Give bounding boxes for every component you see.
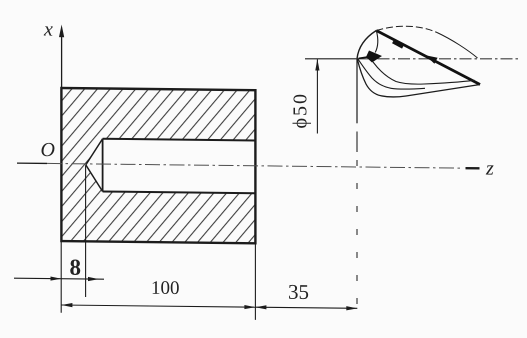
extension line left face <box>60 241 62 313</box>
extension line right face <box>254 243 256 320</box>
svg-text:O: O <box>41 139 55 161</box>
x axis arrowhead <box>59 24 64 37</box>
dim 35 left arrow <box>255 305 266 309</box>
drill cone lower <box>86 165 103 192</box>
dim 8 line <box>14 278 104 279</box>
dim phi50 line <box>316 59 318 133</box>
drill: chisel dark area <box>366 51 382 63</box>
drill: top arc solid part <box>437 33 478 59</box>
svg-text:ϕ50: ϕ50 <box>290 92 312 129</box>
drill: tip to top vertex edge <box>357 31 376 59</box>
drill tip extension line solid <box>356 59 358 124</box>
hatched section of workpiece <box>61 88 255 243</box>
drill: thick cutting edge <box>376 31 480 85</box>
bore left line <box>102 139 104 192</box>
dim phi50 arrow <box>315 59 319 71</box>
drill: chisel edge link <box>359 57 369 59</box>
svg-text:100: 100 <box>151 278 179 299</box>
phi50 extension line (drill axis left) <box>305 58 357 60</box>
svg-text:35: 35 <box>288 280 309 304</box>
dim 100 line <box>61 305 255 307</box>
drill tip extension line dash segment <box>356 132 358 153</box>
dim 35 right arrow <box>346 306 357 310</box>
workpiece outline <box>61 88 255 243</box>
svg-text:x: x <box>43 18 53 40</box>
dim 8 left arrow <box>51 276 62 280</box>
z centerline end dash <box>466 167 480 170</box>
svg-text:z: z <box>485 158 494 180</box>
drill: top arc dashed part <box>376 26 437 32</box>
z centerline dash-dot <box>47 163 462 168</box>
drill: blob on edge <box>393 42 403 47</box>
drill cone upper <box>86 139 103 165</box>
drill axis dash-dot <box>357 58 521 60</box>
dim 35 line <box>255 307 357 308</box>
z centerline solid start <box>17 162 47 164</box>
drill: arrow on edge <box>426 55 438 64</box>
svg-text:8: 8 <box>70 255 81 280</box>
extension line drill point depth <box>85 165 87 296</box>
drill tip extension line dotted <box>356 160 358 308</box>
bore bottom line <box>103 191 256 193</box>
bore top line <box>103 139 256 141</box>
drill: inner flute curve b <box>358 59 425 89</box>
drill: vertex flank line <box>375 31 378 53</box>
dim 8 right arrow <box>88 277 99 281</box>
drill: lower outline <box>357 59 480 97</box>
dim 100 right arrow <box>244 305 255 309</box>
x axis line <box>61 34 63 88</box>
drill: inner flute curve a <box>373 62 475 84</box>
dim 100 left arrow <box>61 303 72 307</box>
